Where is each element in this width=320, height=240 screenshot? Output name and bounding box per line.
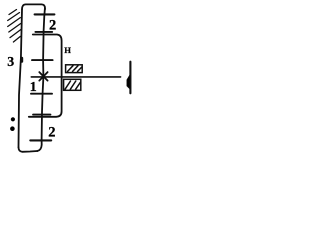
nut lower block <box>64 79 81 90</box>
planet shaft (vertical) <box>37 8 45 151</box>
gear 1 upper bar <box>32 59 53 61</box>
gear 2 top bar <box>35 13 55 15</box>
svg-text:1: 1 <box>30 80 37 95</box>
screw line (central axis) <box>31 76 120 78</box>
follower arrow tab <box>127 75 130 89</box>
gear mesh short bar (bottom) <box>33 114 50 116</box>
frame left line (gear 3, fixed) <box>19 9 23 147</box>
carrier top arm <box>22 4 45 9</box>
wall hatching (fixed support for gear 3) <box>8 10 21 43</box>
gear 3 rim tick <box>20 58 23 61</box>
gear mesh short bar (top) <box>35 31 52 33</box>
svg-text:2: 2 <box>49 17 56 33</box>
svg-text:3: 3 <box>7 54 14 69</box>
nut upper block <box>66 65 83 73</box>
gear rim long bar (top) + carrier H bracket + long bar (bottom) <box>29 35 62 117</box>
frame pivot dots <box>11 117 15 121</box>
screw joint cross X <box>39 72 47 81</box>
carrier bottom arm <box>19 147 38 151</box>
follower bar (right) <box>129 62 131 94</box>
svg-text:H: H <box>64 45 71 55</box>
bottom gear 2 bar <box>30 139 51 141</box>
svg-text:2: 2 <box>48 124 55 140</box>
gear 1 lower bar <box>31 93 52 95</box>
